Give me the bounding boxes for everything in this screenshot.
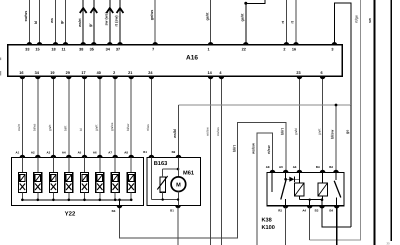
bus junction valve 5 xyxy=(83,199,86,202)
relay contact fixed terminal from pin A8 xyxy=(271,173,273,193)
svg-text:30: 30 xyxy=(386,242,390,245)
svg-text:ws: ws xyxy=(50,18,54,24)
solenoid valve Y22 element 3 xyxy=(49,158,57,200)
wire A16 pin 2 down to solenoid unit xyxy=(114,76,116,157)
svg-text:3: 3 xyxy=(331,47,333,51)
wire to A16 pin 37 xyxy=(119,7,121,45)
svg-text:A16: A16 xyxy=(186,55,198,62)
svg-text:A1: A1 xyxy=(15,151,19,155)
svg-text:sw (ws): sw (ws) xyxy=(105,11,109,25)
svg-text:ws/sw: ws/sw xyxy=(252,143,256,155)
svg-text:B4: B4 xyxy=(329,209,333,213)
svg-text:rt/ge: rt/ge xyxy=(354,15,358,23)
svg-text:B1: B1 xyxy=(143,150,147,154)
A16 bottom pin 2 xyxy=(112,76,118,79)
svg-text:B2: B2 xyxy=(172,150,176,154)
wire full-height vertical right edge xyxy=(390,0,392,241)
junction blade top xyxy=(284,178,287,181)
svg-text:rt (sw): rt (sw) xyxy=(115,15,119,27)
junction motor bottom xyxy=(177,198,179,200)
M61 pin B2 top xyxy=(176,155,182,158)
bus junction valve 2 xyxy=(37,199,40,202)
off-page arrow on pin 35 wire xyxy=(90,8,97,13)
A16 top pin 35 xyxy=(91,42,97,45)
svg-text:37: 37 xyxy=(116,47,120,51)
wire down to M61 pin B2 xyxy=(178,105,180,158)
svg-text:19: 19 xyxy=(50,71,54,75)
svg-text:23: 23 xyxy=(296,71,300,75)
svg-text:bl: bl xyxy=(79,128,83,131)
junction to pin A4 xyxy=(309,199,311,201)
svg-text:15: 15 xyxy=(35,47,39,51)
A16 bottom pin 4 xyxy=(219,76,225,79)
svg-text:bl/ws: bl/ws xyxy=(33,123,37,131)
svg-text:A2: A2 xyxy=(31,151,35,155)
A16 top pin 7 xyxy=(152,42,158,45)
page edge mark xyxy=(0,58,1,61)
wire A16 pin 14 down to bottom edge xyxy=(210,76,212,245)
wire A16 pin 34 down to solenoid unit xyxy=(37,76,39,157)
junction motor top xyxy=(177,168,180,171)
svg-text:38: 38 xyxy=(79,47,83,51)
A16 top pin 3 xyxy=(332,42,338,45)
pre-resistor and pump unit box M61 B163 xyxy=(147,158,201,206)
relay terminal from pin A9 xyxy=(284,173,286,180)
wire A16 pin 24 down to solenoid unit xyxy=(150,76,152,157)
wire M61 pin B1 down inside box xyxy=(150,158,152,200)
junction resistor bottom xyxy=(162,198,164,200)
solenoid valve Y22 element 4 xyxy=(65,158,73,200)
page edge mark xyxy=(0,71,1,76)
wire A16 pin 23 down to relay pin A4 xyxy=(299,76,301,172)
A16 bottom pin 17 xyxy=(82,76,88,79)
wire relay pin B4 to bottom edge thick xyxy=(336,208,338,245)
svg-text:B4: B4 xyxy=(112,209,116,213)
junction coil2 bottom xyxy=(321,198,324,201)
A16 top pin 34 xyxy=(107,42,113,45)
A16 bottom pin 29 xyxy=(66,76,72,79)
relay top pin B2 xyxy=(333,170,339,173)
A16 bottom pin 24 xyxy=(149,76,155,79)
svg-text:gn/rt: gn/rt xyxy=(95,125,99,131)
svg-text:gn/ws: gn/ws xyxy=(110,122,114,131)
svg-text:A5: A5 xyxy=(78,151,82,155)
Y22 pin A5 xyxy=(82,155,88,158)
svg-text:M: M xyxy=(176,182,181,188)
relay top pin B4 xyxy=(320,170,326,173)
svg-text:bl: bl xyxy=(34,21,38,24)
svg-text:1: 1 xyxy=(208,47,210,51)
svg-text:A6: A6 xyxy=(93,151,97,155)
svg-text:ge/rt: ge/rt xyxy=(205,12,209,21)
relay contact blade left xyxy=(281,179,286,199)
wire A16 pin 19 down to solenoid unit xyxy=(52,76,54,157)
wire Y22 pin B4 down, right, up and over to relay pin A9 xyxy=(120,123,287,239)
wire to A16 pin 2 xyxy=(285,0,287,45)
off-page arrow on pin 37 wire xyxy=(117,8,124,13)
relay coil K38 xyxy=(295,173,305,200)
solenoid valve Y22 element 8 xyxy=(127,158,135,200)
wire to A16 pin 22 xyxy=(246,0,265,45)
svg-text:sw/rt: sw/rt xyxy=(17,124,21,131)
wire from bottom edge up over to relay pin A8 xyxy=(257,133,272,245)
node wire M61-B2 to right riser at y105 xyxy=(179,104,351,106)
svg-text:16: 16 xyxy=(292,47,296,51)
svg-text:bl/sw: bl/sw xyxy=(126,123,130,131)
Y22 pin A2 xyxy=(35,155,41,158)
svg-text:A9: A9 xyxy=(279,165,283,169)
bus junction valve 3 xyxy=(52,199,55,202)
junction at y105 xyxy=(335,104,338,107)
wire bus to pin B4 xyxy=(119,200,121,206)
relay top pin A9 xyxy=(283,170,289,173)
Y22 pin A3 xyxy=(51,155,57,158)
A16 top pin 33 xyxy=(27,42,33,45)
svg-text:ws/bl: ws/bl xyxy=(173,129,177,139)
svg-text:18: 18 xyxy=(51,47,55,51)
wire relay pin A4 down to rt/ge run xyxy=(309,208,311,240)
bus junction valve 6 xyxy=(99,199,102,202)
svg-text:bl/sw: bl/sw xyxy=(331,130,335,139)
relay module K38 K100 box xyxy=(267,173,344,206)
svg-text:gn/ws: gn/ws xyxy=(150,10,154,20)
A16 top pin 22 xyxy=(243,42,249,45)
relay bottom pin R2 xyxy=(283,206,289,209)
svg-text:33: 33 xyxy=(25,47,29,51)
A16 bottom pin 21 xyxy=(128,76,134,79)
Y22 pin A1 xyxy=(20,155,26,158)
off-page arrow on pin 34 wire xyxy=(106,8,113,13)
relay bottom pin B3 xyxy=(319,206,325,209)
svg-text:A4: A4 xyxy=(62,151,66,155)
relay terminal to pin B3 xyxy=(321,200,323,206)
resistor B163 xyxy=(157,169,178,200)
relay bottom pin B4 xyxy=(334,206,340,209)
svg-text:ge/rt: ge/rt xyxy=(241,13,245,22)
wire relay pin R2 to bottom edge xyxy=(285,208,287,245)
svg-text:M61: M61 xyxy=(183,170,194,176)
Y22 pin A4 xyxy=(66,155,72,158)
svg-text:16: 16 xyxy=(19,71,23,75)
Y22 common bus wire xyxy=(22,199,131,201)
wire to A16 pin 1 xyxy=(210,0,212,45)
off-page arrow on pin 38 wire xyxy=(80,8,87,13)
relay bottom pin A4 xyxy=(307,206,313,209)
M61 pin B1 bottom xyxy=(175,206,181,209)
wire from A16 pin 3 looping right side down xyxy=(334,3,351,105)
svg-text:40: 40 xyxy=(97,71,101,75)
svg-text:29: 29 xyxy=(66,71,70,75)
svg-text:A7: A7 xyxy=(108,151,112,155)
wire to A16 pin 16 xyxy=(295,0,297,45)
wire A16 pin 6 down to relay pin B4 xyxy=(322,76,324,172)
svg-text:11: 11 xyxy=(61,47,65,51)
bus junction B4 xyxy=(118,199,121,202)
A16 bottom pin 6 xyxy=(320,76,326,79)
svg-text:21: 21 xyxy=(128,71,132,75)
relay top pin A4 xyxy=(297,170,303,173)
A16 bottom pin 34 xyxy=(35,76,41,79)
wire M61 bottom pin to bottom edge xyxy=(177,208,179,245)
svg-text:17: 17 xyxy=(81,71,85,75)
wire to A16 pin 11 xyxy=(65,0,67,45)
svg-text:gr: gr xyxy=(60,20,64,24)
svg-text:B3: B3 xyxy=(315,209,319,213)
solenoid valve Y22 element 6 xyxy=(96,158,104,200)
relay top pin A8 xyxy=(270,170,276,173)
svg-text:gn/rt: gn/rt xyxy=(317,129,321,135)
A16 top pin 37 xyxy=(117,42,123,45)
svg-text:gn/bl: gn/bl xyxy=(294,128,298,135)
A16 top pin 15 xyxy=(37,42,43,45)
wire to A16 pin 35 xyxy=(93,7,95,45)
svg-text:6: 6 xyxy=(321,71,323,75)
A16 bottom pin 40 xyxy=(97,76,103,79)
wire A16 pin 29 down to solenoid unit xyxy=(68,76,70,157)
A16 top pin 16 xyxy=(293,42,299,45)
svg-text:K100: K100 xyxy=(262,225,275,231)
bus junction valve 7 xyxy=(114,199,117,202)
relay contact blade right xyxy=(334,181,341,198)
A16 bottom pin 19 xyxy=(51,76,57,79)
svg-text:B4: B4 xyxy=(316,165,320,169)
wire to A16 pin 34 xyxy=(109,7,111,45)
A16 top pin 1 xyxy=(208,42,214,45)
A16 top pin 11 xyxy=(63,42,69,45)
M61 pin B1 top xyxy=(149,155,155,158)
svg-text:2: 2 xyxy=(283,47,285,51)
svg-text:A8: A8 xyxy=(266,165,270,169)
A16 bottom pin 23 xyxy=(297,76,303,79)
svg-text:sw: sw xyxy=(368,18,372,23)
solenoid valve unit Y22 box xyxy=(12,158,144,206)
Y22 pin A7 xyxy=(112,155,118,158)
wire A16 pin 17 down to solenoid unit xyxy=(84,76,86,157)
svg-text:ge: ge xyxy=(346,130,350,134)
wire across to motor bottom xyxy=(151,199,178,201)
svg-text:bl/rt: bl/rt xyxy=(232,144,236,152)
relay terminal to pin A4 xyxy=(309,200,311,206)
svg-text:A4: A4 xyxy=(293,165,297,169)
svg-text:A3: A3 xyxy=(46,151,50,155)
right riser wire down to y227 xyxy=(350,105,352,227)
wire rt/ge vertical right side down to relay pin A4 run xyxy=(310,0,361,240)
wire A16 pin 4 down to bottom edge xyxy=(220,76,222,245)
svg-text:bl/rt: bl/rt xyxy=(64,126,68,131)
svg-text:A4: A4 xyxy=(302,209,306,213)
junction xyxy=(244,2,247,5)
A16 top pin 18 xyxy=(53,42,59,45)
bus junction valve 8 xyxy=(130,199,133,202)
Y22 pin A8 xyxy=(128,155,134,158)
svg-text:rt/ws: rt/ws xyxy=(146,124,150,131)
diode xyxy=(287,177,300,182)
Y22 pin A6 xyxy=(97,155,103,158)
svg-text:B163: B163 xyxy=(154,161,168,167)
relay contact fixed terminal from pin B2 xyxy=(335,173,337,181)
bus junction valve 4 xyxy=(68,199,71,202)
wire A16 pin 16 down to solenoid unit xyxy=(21,76,23,157)
wire to A16 pin 38 xyxy=(82,7,84,45)
relay terminal to pin B4 xyxy=(336,198,338,206)
svg-text:bl/rt: bl/rt xyxy=(281,127,285,135)
wire down to relay pin B2 xyxy=(335,105,337,173)
svg-text:ws/rt: ws/rt xyxy=(78,18,82,28)
svg-text:gr: gr xyxy=(89,23,93,27)
wire to A16 pin 7 xyxy=(154,0,156,45)
solenoid valve Y22 element 7 xyxy=(111,158,119,200)
svg-text:A8: A8 xyxy=(124,151,128,155)
solenoid valve Y22 element 1 xyxy=(18,158,26,200)
A16 bottom pin 14 xyxy=(208,76,214,79)
solenoid valve Y22 element 2 xyxy=(34,158,42,200)
relay coil common wire xyxy=(299,199,322,201)
svg-text:2: 2 xyxy=(113,71,115,75)
A16 top pin 38 xyxy=(80,42,86,45)
svg-text:B1: B1 xyxy=(170,209,174,213)
control unit A16 box xyxy=(8,45,343,77)
wire to A16 pin 33 xyxy=(28,0,30,45)
relay terminal to pin R2 xyxy=(285,199,287,206)
svg-text:ws/sw: ws/sw xyxy=(205,127,209,136)
svg-text:gn/rt: gn/rt xyxy=(48,125,52,131)
solenoid valve Y22 element 5 xyxy=(81,158,89,200)
A16 top pin 2 xyxy=(284,42,290,45)
Y22 pin B4 xyxy=(117,206,123,209)
svg-text:sw/ws: sw/ws xyxy=(24,11,28,22)
wire A16 pin 21 down to solenoid unit xyxy=(130,76,132,157)
svg-text:rt/sw: rt/sw xyxy=(267,145,271,154)
svg-text:R2: R2 xyxy=(278,209,282,213)
svg-text:B2: B2 xyxy=(329,165,333,169)
A16 bottom pin 16 xyxy=(20,76,26,79)
wire A16 pin 40 down to solenoid unit xyxy=(99,76,101,157)
svg-text:7: 7 xyxy=(152,47,154,51)
svg-text:K38: K38 xyxy=(262,217,272,223)
relay coil K100 xyxy=(318,173,328,200)
svg-text:22: 22 xyxy=(242,47,246,51)
svg-text:35: 35 xyxy=(90,47,94,51)
wire to A16 pin 15 xyxy=(39,0,41,45)
wire to A16 pin 18 xyxy=(55,0,57,45)
svg-text:sw/ws: sw/ws xyxy=(216,127,220,136)
wire sw full-height vertical xyxy=(373,0,375,245)
svg-text:Y22: Y22 xyxy=(65,211,76,218)
bus junction valve 1 xyxy=(21,199,24,202)
wire y227 left to relay pin B3 xyxy=(322,206,351,227)
motor M61 xyxy=(171,158,186,206)
